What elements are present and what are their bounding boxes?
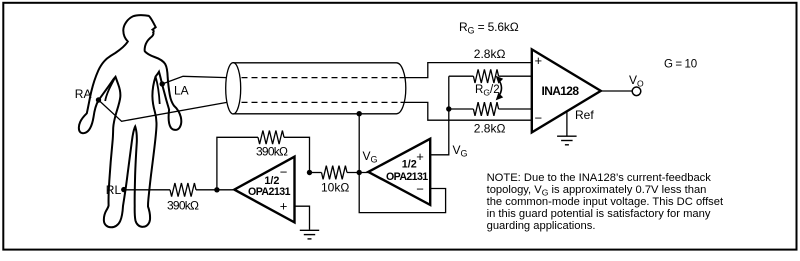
svg-text:2.8kΩ: 2.8kΩ xyxy=(474,47,506,61)
svg-text:in this guard potential is sat: in this guard potential is satisfactory … xyxy=(487,208,711,220)
svg-text:NOTE: Due to the INA128’s curr: NOTE: Due to the INA128’s current-feedba… xyxy=(487,172,712,184)
svg-text:−: − xyxy=(416,182,424,197)
svg-text:RL: RL xyxy=(106,183,122,197)
svg-text:RA: RA xyxy=(75,87,92,101)
svg-text:Ref: Ref xyxy=(575,108,594,122)
svg-text:−: − xyxy=(535,111,543,126)
svg-text:the common-mode input voltage.: the common-mode input voltage. This DC o… xyxy=(487,196,724,208)
svg-text:−: − xyxy=(280,165,288,180)
svg-text:INA128: INA128 xyxy=(542,84,580,98)
svg-text:+: + xyxy=(280,199,288,214)
svg-text:390kΩ: 390kΩ xyxy=(167,199,199,213)
svg-text:10kΩ: 10kΩ xyxy=(321,181,349,195)
svg-text:G = 10: G = 10 xyxy=(664,59,697,71)
svg-text:1/2: 1/2 xyxy=(402,159,417,171)
svg-text:390kΩ: 390kΩ xyxy=(256,144,288,158)
svg-text:guarding applications.: guarding applications. xyxy=(487,220,596,232)
svg-text:1/2: 1/2 xyxy=(264,175,279,187)
svg-text:OPA2131: OPA2131 xyxy=(248,186,291,198)
svg-text:2.8kΩ: 2.8kΩ xyxy=(474,122,506,136)
svg-text:+: + xyxy=(416,149,424,164)
svg-text:+: + xyxy=(535,53,543,68)
svg-text:LA: LA xyxy=(174,84,189,98)
